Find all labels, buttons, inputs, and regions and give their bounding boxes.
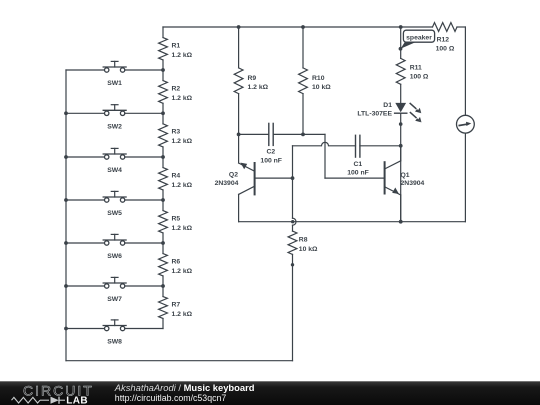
node R9 / C2 / Q2 emitter junction [237, 133, 241, 137]
CircuitLab logo CIRCUIT [23, 383, 94, 399]
node chain junction row 6 [161, 284, 165, 288]
node bus junction row 3 [64, 155, 68, 159]
svg-text:SW4: SW4 [107, 167, 122, 174]
switch SW8 [66, 320, 163, 346]
wire R8 to bottom rail [292, 265, 294, 361]
wire Q2 collector to Q1 emitter to ammeter return [239, 221, 466, 223]
node Q1 emitter junction [399, 220, 403, 224]
footer credit line [114, 382, 255, 393]
node R8 bottom [291, 263, 294, 266]
resistor R4 1.2 kOhm [159, 157, 193, 200]
LED D1 LTL-307EE [357, 102, 421, 222]
ammeter AM1 [457, 115, 475, 133]
svg-text:SW5: SW5 [107, 210, 122, 217]
node LED cathode [399, 122, 403, 126]
svg-text:10 kΩ: 10 kΩ [299, 246, 318, 253]
svg-text:R11: R11 [410, 65, 422, 72]
svg-text:2N3904: 2N3904 [215, 180, 239, 187]
node bus junction row 7 [64, 327, 68, 331]
switch SW1 [66, 61, 163, 87]
svg-text:R10: R10 [312, 75, 325, 82]
resistor R2 1.2 kOhm [159, 70, 193, 113]
wire node A (Q2 emitter / R9 to Q1 base via C2) [239, 134, 385, 178]
resistor R5 1.2 kOhm [159, 200, 193, 243]
svg-text:R8: R8 [299, 237, 308, 244]
node chain junction row 2 [161, 111, 165, 115]
node R10 / line A junction [301, 133, 305, 137]
node top rail / R9 [237, 25, 241, 29]
svg-text:R4: R4 [172, 172, 181, 179]
switch SW5 [66, 191, 163, 217]
node Q1 collector / C1 / LED junction [399, 144, 403, 148]
node top rail / speaker branch [399, 25, 403, 29]
svg-text:1.2 kΩ: 1.2 kΩ [172, 225, 193, 232]
node chain junction row 4 [161, 198, 165, 202]
svg-text:100 Ω: 100 Ω [436, 46, 455, 53]
resistor R6 1.2 kOhm [159, 243, 193, 286]
resistor R3 1.2 kOhm [159, 113, 193, 157]
node bus junction row 6 [64, 284, 68, 288]
svg-text:Q1: Q1 [401, 172, 410, 179]
svg-text:SW8: SW8 [107, 339, 122, 346]
svg-text:R9: R9 [248, 75, 257, 82]
svg-text:R2: R2 [172, 85, 181, 92]
wire right branch [464, 27, 466, 222]
svg-text:Q2: Q2 [229, 172, 238, 179]
svg-text:http://circuitlab.com/c53qcn7: http://circuitlab.com/c53qcn7 [115, 393, 227, 403]
svg-text:R5: R5 [172, 215, 181, 222]
resistor R1 1.2 kOhm [159, 27, 193, 70]
svg-text:10 kΩ: 10 kΩ [312, 84, 331, 91]
wire Q2 base branch down to R8 (hop over bottom wire) [293, 178, 297, 231]
svg-text:100 nF: 100 nF [260, 158, 282, 165]
node bus junction row 5 [64, 241, 68, 245]
transistor Q1 2N3904 [385, 146, 425, 222]
node chain junction row 1 [161, 68, 165, 72]
switch SW7 [66, 277, 163, 303]
svg-text:100 Ω: 100 Ω [410, 74, 429, 81]
resistor R11 100 Ohm [396, 58, 429, 103]
svg-text:SW7: SW7 [107, 296, 122, 303]
switch SW4 [66, 148, 163, 174]
resistor R10 10 kOhm [299, 27, 332, 134]
svg-text:100 nF: 100 nF [347, 169, 369, 176]
svg-text:C1: C1 [353, 161, 362, 168]
capacitor C1 100 nF [347, 135, 369, 176]
svg-text:1.2 kΩ: 1.2 kΩ [172, 311, 193, 318]
svg-text:SW1: SW1 [107, 80, 122, 87]
svg-text:AkshathaArodi / Music keyboard: AkshathaArodi / Music keyboard [114, 382, 255, 393]
node chain junction row 3 [161, 155, 165, 159]
capacitor C2 100 nF [260, 123, 282, 164]
node bus junction row 2 [64, 111, 68, 115]
svg-text:1.2 kΩ: 1.2 kΩ [172, 138, 193, 145]
wire left bus [65, 70, 67, 361]
wire bottom rail [66, 360, 293, 362]
switch SW6 [66, 234, 163, 260]
resistor R12 100 Ohm [433, 23, 458, 53]
footer url line [115, 393, 227, 403]
transistor Q2 2N3904 [215, 134, 293, 221]
node top rail / R10 [301, 25, 305, 29]
resistor R9 1.2 kOhm [234, 27, 268, 134]
svg-text:C2: C2 [266, 149, 275, 156]
svg-text:1.2 kΩ: 1.2 kΩ [172, 268, 193, 275]
resistor R7 1.2 kOhm [159, 286, 193, 329]
svg-text:1.2 kΩ: 1.2 kΩ [248, 84, 269, 91]
net label speaker [399, 30, 435, 50]
svg-text:1.2 kΩ: 1.2 kΩ [172, 52, 193, 59]
svg-text:R1: R1 [172, 42, 181, 49]
node Q2 base junction [291, 176, 295, 180]
footer bar [0, 381, 540, 405]
wire node B (Q2 base to Q1 collector via C1, hop over line A) [293, 142, 401, 178]
svg-text:2N3904: 2N3904 [401, 180, 425, 187]
CircuitLab logo zigzag+diode+LAB [12, 396, 88, 405]
svg-text:LAB: LAB [66, 396, 88, 405]
svg-text:R3: R3 [172, 129, 181, 136]
resistor R8 10 kOhm [288, 231, 318, 265]
node bus junction row 4 [64, 198, 68, 202]
svg-text:R6: R6 [172, 258, 181, 265]
svg-text:1.2 kΩ: 1.2 kΩ [172, 95, 193, 102]
svg-text:SW6: SW6 [107, 253, 122, 260]
svg-text:LTL-307EE: LTL-307EE [357, 111, 392, 118]
svg-text:1.2 kΩ: 1.2 kΩ [172, 182, 193, 189]
node chain junction row 5 [161, 241, 165, 245]
svg-text:SW2: SW2 [107, 124, 122, 131]
svg-text:D1: D1 [383, 102, 392, 109]
svg-text:R7: R7 [172, 301, 181, 308]
switch SW2 [66, 105, 163, 131]
node hop crossing dot [291, 220, 294, 223]
wire speaker branch [400, 27, 402, 58]
wire top rail [163, 26, 465, 28]
svg-text:speaker: speaker [406, 35, 432, 42]
svg-text:R12: R12 [437, 37, 450, 44]
